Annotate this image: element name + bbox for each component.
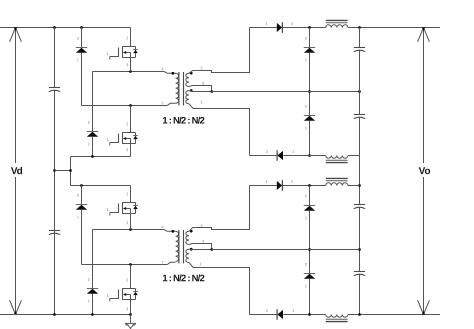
pin 4 label T2 [162,226,164,229]
transformer T1 secondary upper phase dot [190,72,193,75]
node Q3 source junction (bottom cell) [129,228,132,231]
wire node A (primary top, top cell) [93,72,176,74]
wire output cap column [359,28,361,315]
inductor output L1 (top cell) [326,20,348,27]
wire T1 pin 1 lead [189,104,250,156]
wire T2 pin 2 lead [189,186,250,232]
wire node A2 (primary top, bottom cell) [93,230,176,232]
wire T1 center tap upper lead [189,86,212,92]
node bottom bus / Q4 source junction [129,313,132,316]
node input cap midpoint [53,169,56,172]
node center tap rail / freewheel junction (top cell) [308,90,311,93]
node bottom bus / D4 junction [91,313,94,316]
transformer T2 primary winding [176,231,179,261]
node D2 anode junction (top cell) [91,155,94,158]
wire Q1 drain rail (bottom cell) [71,185,131,187]
diode D1 clamp upper (top cell) [76,28,87,106]
diode D3 clamp upper (bottom cell) [76,186,87,265]
Vd measurement arrow (input voltage) [10,28,22,315]
wire freewheel diode column (top cell) [309,28,311,156]
wire center tap rail (bottom cell) [212,249,360,251]
transformer T1 secondary upper winding [186,73,189,86]
diode rectifier D5 (top rail) [266,22,293,33]
wire T2 center tap upper lead [189,244,212,250]
transistor Q1 MOSFET (top cell upper) [107,28,138,72]
transformer T1 secondary lower winding [186,91,189,104]
capacitor output C4 (top cell lower) [354,115,365,119]
diode D4 clamp lower (bottom cell) [87,230,98,315]
label turns ratio T1 [163,117,204,124]
wire pin1 return rail (top cell) [250,155,360,157]
node pin2 rail / freewheel junction (bottom cell) [308,184,311,187]
wire T2 pin 1 lead [189,263,250,315]
label Vo [419,167,430,174]
node top rail / freewheel diode junction [308,26,311,29]
node bottom rail / output cap junction [358,313,361,316]
node Q4 drain junction (bottom cell) [129,263,132,266]
diode freewheel D7 (top cell lower) [304,105,315,129]
node top rail / output cap junction [358,26,361,29]
capacitor input C1 [49,88,60,92]
pin 4 label T1 [162,68,164,71]
capacitor output C3 (top cell upper) [354,48,365,52]
capacitor input C2 [49,231,60,235]
node cap column / center tap junction (bottom cell) [358,248,361,251]
node top bus / input cap junction [53,26,56,29]
label turns ratio T2 [163,274,204,281]
wire top input bus [0,27,131,29]
node bottom rail / freewheel junction [308,313,311,316]
wire freewheel diode column (bottom cell) [309,186,311,315]
diode D2 clamp lower (top cell) [87,72,98,157]
pin 1 label T1 [201,101,203,104]
wire center tap rail (top cell) [212,91,360,93]
diode rectifier D8 (pin1 rail, top cell) [266,150,294,161]
diode rectifier D9 (pin2 rail, bottom cell) [266,180,293,191]
transformer T2 secondary lower winding [186,249,189,262]
transformer T1 primary phase dot [172,72,175,75]
diode freewheel D6 (top cell upper) [304,37,315,61]
transformer T2 secondary upper phase dot [190,230,193,233]
transformer T2 secondary lower phase dot [190,248,193,251]
wire input bus vertical [54,28,56,315]
wire output bottom rail [250,314,441,316]
wire Q2 source rail (top cell) [71,156,131,158]
node top bus / clamp diode D1 junction [80,26,83,29]
transformer T2 core [179,230,184,263]
wire output top rail [250,27,441,29]
capacitor output C6 (bottom cell lower) [354,272,365,276]
transformer T1 secondary lower phase dot [190,89,193,92]
capacitor output C5 (bottom cell upper) [354,205,365,209]
wire pin2 rail (bottom cell) [250,185,360,187]
transformer T1 core [179,72,184,105]
wire bridge midpoint vertical [70,157,72,186]
wire bottom input bus [0,314,131,316]
pin 3 label T2 [202,240,204,243]
wire node B2 (primary bottom, bottom cell) [82,262,176,264]
transistor Q2 MOSFET (top cell lower) [107,106,138,157]
diode rectifier D12 (bottom rail) [266,309,294,320]
wire node B (primary bottom, top cell) [82,103,176,105]
node center tap rail / freewheel junction (bottom cell) [308,248,311,251]
pin 3 label T1 [202,82,204,85]
node D1 cathode junction (bottom cell) [80,184,83,187]
wire cap midpoint to bridge midpoint [55,170,71,172]
transformer T2 primary phase dot [172,230,175,233]
inductor output L3 (bottom cell) [326,178,348,185]
node center tap rail / cap junction (top cell) [358,90,361,93]
diode freewheel D11 (bottom cell lower) [304,263,315,287]
diode freewheel D10 (bottom cell upper) [304,195,315,219]
transistor Q4 MOSFET (bottom cell lower) [107,265,138,315]
transformer T1 primary winding [176,73,179,103]
pin 7 label T1 [162,102,164,105]
ground [125,315,136,329]
label Vd [11,167,22,174]
pin 1 label T2 [200,263,202,266]
node bottom bus / input cap junction [53,313,56,316]
node pin1 rail / freewheel junction (top cell) [308,154,311,157]
node cap column / bottom cell rail junction [358,184,361,187]
wire T1 center tap lower lead [189,90,212,93]
inductor output L4 (bottom cell) [326,315,348,322]
wire T2 center tap lower lead [189,248,212,250]
pin 7 label T2 [162,261,164,264]
node T1 center tap [210,90,213,93]
inductor output L2 (top cell) [326,156,348,163]
pin 2 label T1 [201,67,203,70]
node Q1 source junction (top cell) [129,70,132,73]
node T2 center tap [210,248,213,251]
transistor Q3 MOSFET (bottom cell upper) [107,186,138,230]
node bridge midpoint [69,169,72,172]
pin 2 label T2 [201,224,203,227]
Vo measurement arrow (output voltage) [418,28,430,315]
wire T1 pin 2 lead [189,28,250,74]
transformer T2 secondary upper winding [186,231,189,244]
node Q2 drain junction (top cell) [129,104,132,107]
